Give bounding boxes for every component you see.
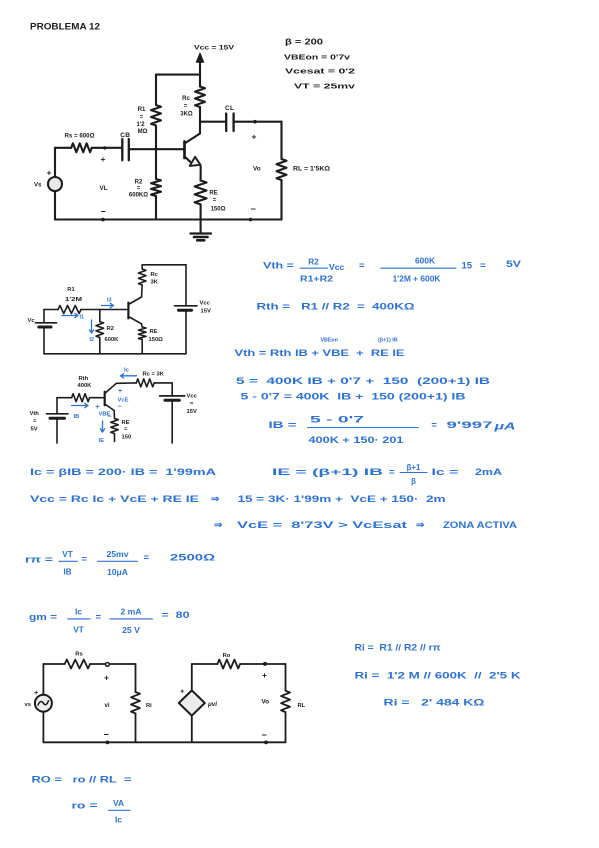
svg-text:Ic: Ic bbox=[124, 368, 130, 374]
svg-text:5 - 0'7: 5 - 0'7 bbox=[310, 415, 364, 425]
svg-text:5V: 5V bbox=[31, 427, 38, 433]
svg-text:−: − bbox=[104, 729, 109, 739]
svg-text:IB: IB bbox=[63, 568, 71, 577]
svg-text:15 = 3K· 1'99m + VcE + 150·: 15 = 3K· 1'99m + VcE + 150· 2m bbox=[238, 494, 446, 505]
vo labels C4 bbox=[262, 670, 270, 740]
svg-text:2mA: 2mA bbox=[475, 467, 502, 478]
svg-text:VT: VT bbox=[62, 550, 72, 559]
svg-text:R2: R2 bbox=[308, 258, 319, 267]
resistor RC (3K) vertical bbox=[180, 75, 205, 134]
formula VCE result bbox=[214, 520, 517, 531]
svg-text:400K: 400K bbox=[78, 383, 93, 389]
svg-text:gm =: gm = bbox=[29, 612, 58, 623]
svg-text:=: = bbox=[389, 467, 395, 478]
vi labels bbox=[100, 154, 108, 217]
bottom rail C4 bbox=[43, 741, 285, 743]
svg-text:Rc = 3K: Rc = 3K bbox=[143, 372, 165, 378]
formula r-pi bbox=[25, 549, 216, 577]
svg-text:Vth =: Vth = bbox=[263, 261, 295, 272]
svg-text:+: + bbox=[101, 154, 106, 164]
svg-text:Rth: Rth bbox=[79, 376, 89, 382]
VCE labels bbox=[118, 388, 129, 411]
svg-text:15: 15 bbox=[462, 261, 473, 272]
resistor RE 150 C3 bbox=[111, 411, 131, 442]
svg-text:rπ =: rπ = bbox=[25, 555, 54, 566]
C2 top-left rail bbox=[44, 309, 58, 311]
capacitor CL bbox=[225, 105, 234, 131]
svg-text:RE: RE bbox=[122, 420, 130, 426]
resistor RL vertical C4 bbox=[281, 664, 306, 742]
svg-text:vi: vi bbox=[105, 703, 110, 709]
resistor RC 3K horizontal bbox=[116, 372, 172, 387]
svg-text:Vo: Vo bbox=[262, 699, 270, 706]
svg-text:IE = (β+1) IB: IE = (β+1) IB bbox=[272, 467, 383, 478]
svg-text:5V: 5V bbox=[506, 259, 522, 270]
svg-text:β: β bbox=[411, 477, 416, 486]
svg-text:⇒: ⇒ bbox=[416, 520, 425, 531]
transistor Q1 bbox=[185, 134, 201, 181]
current I3 arrow bbox=[102, 298, 114, 308]
resistor R1 (1'2M) vertical bbox=[136, 75, 161, 150]
svg-text:=: = bbox=[144, 553, 150, 564]
svg-text:150Ω: 150Ω bbox=[211, 207, 226, 213]
svg-text:Rs: Rs bbox=[75, 652, 82, 658]
svg-text:RE: RE bbox=[209, 191, 217, 197]
resistor R2 600K vertical bbox=[96, 310, 119, 354]
resistor R2 (600K) vertical bbox=[129, 149, 161, 219]
svg-text:1'2M + 600K: 1'2M + 600K bbox=[393, 274, 441, 284]
resistor Ro horizontal bbox=[192, 653, 286, 669]
svg-text:25mv: 25mv bbox=[107, 549, 129, 559]
wire CL to RL bbox=[234, 121, 282, 123]
C2 bottom rail bbox=[44, 353, 186, 355]
svg-text:μA: μA bbox=[493, 421, 516, 433]
wire base C2 bbox=[100, 309, 129, 311]
svg-text:5 = 400K IB + 0'7 + 150 (20: 5 = 400K IB + 0'7 + 150 (200+1) IB bbox=[236, 376, 490, 387]
svg-text:600KΩ: 600KΩ bbox=[129, 193, 148, 199]
svg-text:μvi: μvi bbox=[207, 701, 217, 708]
dependent source u vi (diamond) bbox=[179, 664, 217, 742]
node vi top bbox=[103, 146, 106, 149]
svg-text:R1: R1 bbox=[67, 287, 75, 293]
svg-text:PROBLEMA 12: PROBLEMA 12 bbox=[30, 22, 100, 33]
current I2 arrow bbox=[89, 320, 94, 343]
svg-text:Vcc = Rc Ic + VcE + RE IE: Vcc = Rc Ic + VcE + RE IE bbox=[30, 494, 199, 505]
svg-text:VL: VL bbox=[100, 185, 108, 192]
parameters list bbox=[284, 38, 356, 91]
svg-text:Vth: Vth bbox=[30, 411, 40, 417]
svg-text:3KΩ: 3KΩ bbox=[180, 112, 193, 118]
svg-text:+: + bbox=[262, 670, 267, 680]
source Vs bbox=[34, 148, 62, 220]
svg-text:+: + bbox=[180, 687, 185, 696]
svg-text:Vcc: Vcc bbox=[187, 394, 198, 400]
svg-text:ro =: ro = bbox=[72, 801, 99, 812]
svg-text:Ic: Ic bbox=[115, 815, 122, 825]
svg-text:Rc: Rc bbox=[151, 272, 159, 278]
svg-text:VT: VT bbox=[73, 626, 83, 635]
svg-text:Vth = Rth IB + VBE + RE IE: Vth = Rth IB + VBE + RE IE bbox=[235, 348, 405, 359]
svg-text:Vcc: Vcc bbox=[200, 301, 211, 307]
svg-text:ZONA ACTIVA: ZONA ACTIVA bbox=[443, 520, 517, 531]
svg-text:VcE = 8'73V > VcEsat: VcE = 8'73V > VcEsat bbox=[237, 520, 408, 531]
formula Vth KVL bbox=[235, 338, 405, 360]
resistor Rs C4 bbox=[43, 652, 135, 669]
vi labels C4 bbox=[104, 673, 110, 740]
svg-text:+: + bbox=[96, 404, 100, 411]
battery Vcc C2 bbox=[175, 301, 211, 354]
node vo top bbox=[253, 120, 257, 124]
resistor R1 1'2M horizontal bbox=[58, 287, 100, 314]
formula IB result bbox=[269, 415, 516, 445]
svg-text:⇒: ⇒ bbox=[214, 520, 223, 531]
resistor RE 150 vertical C2 bbox=[138, 324, 163, 354]
svg-text:MΩ: MΩ bbox=[138, 129, 148, 135]
svg-text:VBEon: VBEon bbox=[321, 338, 338, 344]
svg-text:IB =: IB = bbox=[269, 420, 298, 431]
C2 top rail to Vcc bbox=[142, 264, 186, 266]
battery Vcc C3 bbox=[160, 383, 198, 443]
svg-text:−: − bbox=[101, 207, 106, 217]
wire node to CB bbox=[105, 147, 123, 149]
svg-text:+: + bbox=[118, 388, 122, 395]
svg-text:R2: R2 bbox=[107, 326, 114, 332]
svg-text:Rs = 600Ω: Rs = 600Ω bbox=[65, 134, 95, 140]
VBE labels bbox=[96, 404, 112, 421]
formula Vth divider bbox=[263, 256, 522, 284]
resistor Rth 400K bbox=[57, 376, 105, 402]
transistor Q2 bbox=[128, 297, 141, 324]
svg-text:600K: 600K bbox=[415, 256, 435, 266]
svg-text:Ri = 1'2 M // 600K // 2'5 K: Ri = 1'2 M // 600K // 2'5 K bbox=[355, 671, 521, 682]
svg-text:VBEon = 0'7v: VBEon = 0'7v bbox=[284, 53, 351, 62]
svg-text:2500Ω: 2500Ω bbox=[170, 552, 216, 563]
svg-text:Ri: Ri bbox=[146, 703, 152, 709]
svg-text:Rc: Rc bbox=[182, 96, 190, 102]
svg-text:I3: I3 bbox=[107, 298, 112, 304]
svg-text:R1+R2: R1+R2 bbox=[300, 275, 334, 284]
capacitor CB bbox=[120, 132, 130, 160]
svg-text:Vcc: Vcc bbox=[329, 262, 345, 272]
svg-text:=: = bbox=[184, 104, 188, 110]
bottom rail C1 bbox=[55, 218, 282, 220]
svg-text:I2: I2 bbox=[90, 337, 95, 343]
battery Vc bbox=[28, 310, 57, 354]
resistor RC 3K vertical bbox=[138, 265, 158, 297]
resistor Ri vertical bbox=[131, 664, 152, 742]
current IB arrow bbox=[72, 403, 89, 420]
ground bbox=[191, 220, 212, 241]
svg-text:=: = bbox=[431, 420, 437, 431]
svg-text:−: − bbox=[118, 404, 122, 411]
svg-text:Ro: Ro bbox=[223, 653, 231, 659]
svg-text:3K: 3K bbox=[151, 280, 159, 286]
svg-text:RL: RL bbox=[298, 703, 306, 709]
svg-text:150: 150 bbox=[122, 435, 132, 441]
source vs AC bbox=[25, 664, 52, 742]
svg-text:VT = 25mv: VT = 25mv bbox=[294, 82, 356, 91]
svg-text:15V: 15V bbox=[187, 409, 197, 415]
svg-text:I1: I1 bbox=[80, 315, 85, 321]
svg-text:2 mA: 2 mA bbox=[120, 607, 141, 617]
svg-text:⇒: ⇒ bbox=[211, 494, 220, 505]
svg-text:RL = 1'5KΩ: RL = 1'5KΩ bbox=[293, 166, 330, 172]
svg-text:−: − bbox=[262, 730, 267, 740]
svg-text:15V: 15V bbox=[201, 309, 211, 315]
svg-text:150Ω: 150Ω bbox=[149, 337, 164, 343]
svg-text:Vs: Vs bbox=[34, 183, 42, 189]
svg-text:+: + bbox=[104, 673, 109, 683]
Vcc supply arrow bbox=[194, 45, 235, 75]
svg-text:−: − bbox=[251, 204, 256, 214]
svg-text:=: = bbox=[213, 198, 217, 204]
svg-text:β = 200: β = 200 bbox=[285, 38, 324, 47]
svg-text:Ri = 2' 484 KΩ: Ri = 2' 484 KΩ bbox=[384, 698, 486, 709]
formula IE bbox=[272, 463, 502, 486]
svg-text:+: + bbox=[47, 168, 52, 178]
current I1 arrow bbox=[62, 313, 84, 320]
transistor Q3 bbox=[105, 383, 117, 410]
svg-text:+: + bbox=[252, 132, 257, 142]
svg-text:25 V: 25 V bbox=[122, 625, 140, 635]
svg-text:=: = bbox=[96, 612, 102, 623]
svg-text:IE: IE bbox=[99, 438, 105, 444]
resistor Rs (600) horizontal bbox=[55, 134, 105, 153]
svg-text:400K + 150· 201: 400K + 150· 201 bbox=[309, 435, 404, 445]
svg-text:(β+1) IB: (β+1) IB bbox=[378, 338, 398, 344]
svg-text:CB: CB bbox=[120, 132, 130, 139]
svg-text:=: = bbox=[137, 186, 141, 192]
svg-text:CL: CL bbox=[225, 105, 234, 112]
svg-text:β+1: β+1 bbox=[407, 463, 421, 472]
svg-text:Ic = βIB = 200· IB = 1'99mA: Ic = βIB = 200· IB = 1'99mA bbox=[30, 467, 216, 478]
svg-text:Vcesat = 0'2: Vcesat = 0'2 bbox=[285, 67, 355, 76]
svg-text:=: = bbox=[140, 115, 144, 121]
svg-text:Ri = R1 // R2 // rπ: Ri = R1 // R2 // rπ bbox=[355, 643, 442, 654]
terminal node C4 bbox=[106, 663, 110, 667]
svg-text:R1: R1 bbox=[138, 107, 146, 113]
svg-text:=: = bbox=[359, 261, 365, 272]
wire CB to base bbox=[129, 148, 185, 150]
current IC arrow bbox=[121, 368, 137, 379]
svg-text:Ic: Ic bbox=[75, 608, 82, 617]
svg-text:−: − bbox=[108, 414, 112, 421]
svg-text:vs: vs bbox=[25, 702, 31, 708]
svg-text:IB: IB bbox=[74, 414, 80, 420]
wire top rail C1 bbox=[156, 74, 200, 76]
battery Vth bbox=[30, 398, 69, 443]
svg-text:Vc: Vc bbox=[28, 318, 36, 324]
svg-text:5 - 0'7 = 400K IB + 150 (200: 5 - 0'7 = 400K IB + 150 (200+1) IB bbox=[241, 392, 466, 403]
formula gm bbox=[29, 607, 190, 636]
svg-text:9'997: 9'997 bbox=[447, 420, 493, 431]
svg-text:VA: VA bbox=[113, 798, 124, 808]
svg-text:Vo: Vo bbox=[253, 166, 261, 173]
formula ro bbox=[72, 798, 131, 825]
svg-text:RE: RE bbox=[150, 329, 158, 335]
resistor RE vertical bbox=[195, 181, 226, 220]
wire collector to CL bbox=[200, 121, 226, 123]
svg-text:Ic =: Ic = bbox=[432, 467, 460, 478]
svg-text:=: = bbox=[82, 554, 88, 565]
svg-text:600K: 600K bbox=[105, 337, 120, 343]
svg-text:= 80: = 80 bbox=[162, 610, 190, 621]
svg-text:Rth = R1 // R2 = 400KΩ: Rth = R1 // R2 = 400KΩ bbox=[257, 302, 416, 313]
svg-text:1'2M: 1'2M bbox=[65, 297, 82, 303]
svg-text:RO = ro // RL =: RO = ro // RL = bbox=[32, 775, 133, 786]
svg-text:+: + bbox=[34, 688, 39, 697]
svg-text:=: = bbox=[480, 261, 486, 272]
vo labels bbox=[251, 132, 261, 215]
svg-text:1'2: 1'2 bbox=[136, 122, 145, 128]
resistor RL vertical bbox=[277, 122, 331, 220]
current IE arrow bbox=[99, 421, 105, 444]
svg-text:Vcc = 15V: Vcc = 15V bbox=[194, 45, 235, 52]
svg-text:10μA: 10μA bbox=[107, 567, 128, 577]
